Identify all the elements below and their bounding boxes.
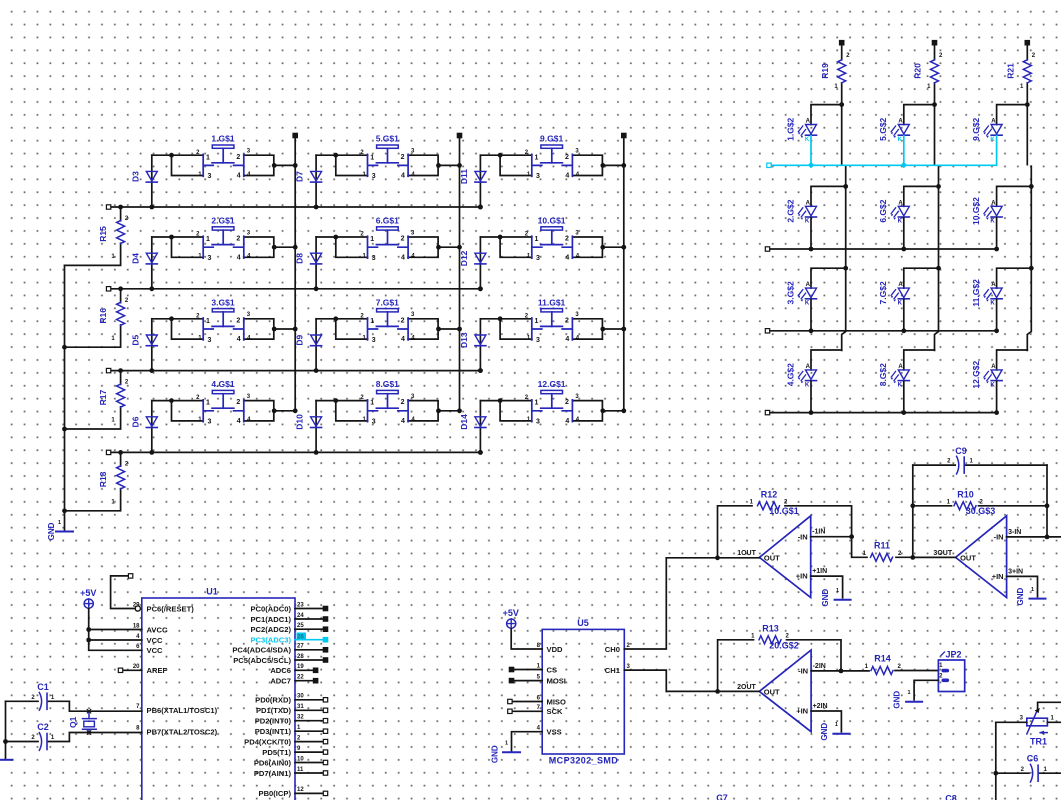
svg-text:3: 3 <box>207 419 211 426</box>
svg-text:D4: D4 <box>130 253 140 264</box>
diode D8 <box>295 237 322 291</box>
pin numbers of wire connections <box>360 230 415 259</box>
svg-text:1: 1 <box>505 741 508 747</box>
svg-text:PD0(RXD): PD0(RXD) <box>255 696 291 705</box>
wire <box>152 401 203 421</box>
svg-text:CS: CS <box>547 665 558 674</box>
svg-text:R13: R13 <box>762 624 779 634</box>
resistor R16 <box>65 286 129 347</box>
svg-text:10.G$1: 10.G$1 <box>769 506 799 516</box>
wire cathode <box>994 300 999 334</box>
svg-text:2: 2 <box>565 399 569 406</box>
wire CH0 to 1OUT <box>624 558 666 649</box>
svg-text:2: 2 <box>236 154 240 161</box>
wire vertical to C6 <box>993 722 998 800</box>
svg-text:D10: D10 <box>295 414 305 430</box>
svg-text:K: K <box>805 301 810 307</box>
wire feedback left vertical <box>910 465 915 557</box>
svg-text:2.G$2: 2.G$2 <box>785 199 795 222</box>
svg-text:A: A <box>898 364 903 370</box>
pin numbers of wire connections <box>196 230 251 259</box>
svg-text:SCK: SCK <box>547 707 564 716</box>
svg-text:1: 1 <box>370 236 374 243</box>
svg-text:K: K <box>898 219 903 225</box>
wire <box>316 319 367 339</box>
wire <box>904 268 939 288</box>
svg-text:D7: D7 <box>295 171 305 182</box>
wire <box>904 186 939 206</box>
svg-text:4: 4 <box>401 254 405 261</box>
svg-text:4: 4 <box>237 418 241 425</box>
svg-text:2: 2 <box>565 236 569 243</box>
svg-text:6.G$2: 6.G$2 <box>878 199 888 222</box>
wire <box>408 155 459 175</box>
resistor R12 <box>718 490 852 558</box>
wire +5V to VDD <box>511 628 542 649</box>
svg-text:3: 3 <box>207 173 211 180</box>
diode D6 <box>130 401 157 455</box>
svg-text:K: K <box>990 382 995 388</box>
capacitor C6 <box>996 754 1061 783</box>
svg-text:8.G$2: 8.G$2 <box>878 363 888 386</box>
svg-text:12: 12 <box>297 787 304 793</box>
wire <box>572 237 623 257</box>
wire row bus 4 of LED matrix <box>765 410 996 414</box>
diode D12 <box>459 237 486 291</box>
switch 2.G$1 <box>203 216 244 263</box>
diode D10 <box>295 401 322 455</box>
LED 7.G$2 <box>878 281 909 306</box>
IC U1 pin PB0(ICP) <box>259 787 328 798</box>
wire <box>811 350 842 370</box>
svg-text:1: 1 <box>535 400 539 407</box>
svg-text:D6: D6 <box>130 416 140 427</box>
svg-text:2OUT: 2OUT <box>737 684 756 691</box>
IC U1 pin PC1(ADC1) <box>250 613 327 624</box>
svg-text:PD4(XCK/T0): PD4(XCK/T0) <box>244 737 291 746</box>
LED 2.G$2 <box>785 199 816 224</box>
svg-text:K: K <box>898 301 903 307</box>
svg-text:U1: U1 <box>206 587 218 597</box>
ground GND of op-amp 3 <box>1016 587 1046 605</box>
wire cathode <box>809 300 814 334</box>
svg-text:1: 1 <box>206 318 210 325</box>
svg-text:C1: C1 <box>37 682 49 692</box>
svg-text:-1IN: -1IN <box>812 529 825 536</box>
svg-text:OUT: OUT <box>764 687 780 696</box>
resistor R11 <box>852 537 913 562</box>
pin numbers of wire connections <box>196 394 251 423</box>
wire +2IN to ground <box>811 711 841 732</box>
pin numbers of wire connections <box>360 312 415 341</box>
capacitor C9 <box>913 446 1047 475</box>
wire cathode to highlighted net <box>901 136 907 168</box>
svg-text:K: K <box>990 137 995 143</box>
svg-text:4.G$1: 4.G$1 <box>211 379 234 389</box>
svg-text:1: 1 <box>370 318 374 325</box>
wire <box>572 155 623 175</box>
wire <box>811 105 842 125</box>
svg-text:23: 23 <box>297 602 304 608</box>
LED 12.G$2 <box>971 360 1002 388</box>
wire <box>316 155 367 175</box>
ground GND of switch matrix <box>47 520 73 540</box>
LED 10.G$2 <box>971 197 1002 225</box>
svg-text:-IN: -IN <box>994 533 1004 542</box>
svg-text:19: 19 <box>297 664 304 670</box>
diode D13 <box>459 319 486 373</box>
svg-text:R18: R18 <box>98 471 108 487</box>
wire CH1 to 2OUT <box>624 670 666 691</box>
svg-text:3: 3 <box>372 255 376 262</box>
wire <box>480 155 531 175</box>
svg-text:3+IN: 3+IN <box>1008 568 1023 575</box>
svg-text:4: 4 <box>237 254 241 261</box>
svg-text:Q1: Q1 <box>68 716 78 728</box>
ground GND of op-amp 1 <box>821 588 851 606</box>
svg-text:3: 3 <box>536 173 540 180</box>
svg-text:4: 4 <box>237 173 241 180</box>
svg-text:4: 4 <box>565 336 569 343</box>
wire <box>811 268 846 288</box>
svg-text:3: 3 <box>207 255 211 262</box>
IC U1 left pin names <box>133 602 218 736</box>
connector JP2 <box>938 650 964 692</box>
svg-text:10: 10 <box>297 756 304 762</box>
wire CS <box>509 667 542 671</box>
svg-text:GND: GND <box>491 745 500 763</box>
svg-text:R15: R15 <box>98 226 108 242</box>
svg-text:9.G$1: 9.G$1 <box>540 134 563 144</box>
diode D4 <box>130 237 157 291</box>
svg-text:-IN: -IN <box>798 667 808 676</box>
LED 4.G$2 <box>785 363 816 388</box>
svg-text:MISO: MISO <box>547 697 567 706</box>
svg-text:4: 4 <box>401 418 405 425</box>
wire <box>904 105 935 125</box>
svg-text:-IN: -IN <box>798 532 808 541</box>
svg-text:30.G$3: 30.G$3 <box>966 506 996 516</box>
wire column bus 2 of LED matrix <box>932 102 941 350</box>
wire <box>408 401 459 421</box>
svg-text:MOSI: MOSI <box>547 676 566 685</box>
switch 9.G$1 <box>532 134 573 181</box>
svg-text:10.G$2: 10.G$2 <box>971 197 981 225</box>
svg-text:2: 2 <box>565 317 569 324</box>
svg-text:1: 1 <box>1031 587 1034 593</box>
wire column bus 3 of LED matrix <box>1025 102 1034 350</box>
svg-text:1: 1 <box>206 236 210 243</box>
svg-text:+IN: +IN <box>992 572 1004 581</box>
wire cathode to highlighted net <box>996 136 998 165</box>
IC U1 pin PD5(T1) <box>262 746 327 757</box>
IC U1 pin PD6(AIN0) <box>254 756 328 767</box>
diode D11 <box>459 155 486 209</box>
svg-text:PD3(INT1): PD3(INT1) <box>255 727 292 736</box>
svg-text:K: K <box>805 137 810 143</box>
svg-text:+5V: +5V <box>503 608 519 618</box>
wire +5V to AVCC/VCC <box>86 608 142 650</box>
svg-text:31: 31 <box>297 704 304 710</box>
LED 9.G$2 <box>971 117 1002 142</box>
svg-text:1: 1 <box>835 722 838 728</box>
svg-text:C6: C6 <box>1027 754 1039 764</box>
wire row bus 3 of switch matrix <box>106 368 482 373</box>
wire <box>904 350 935 370</box>
svg-text:D9: D9 <box>295 334 305 345</box>
wire JP2 pin2 to ground <box>914 680 938 700</box>
svg-text:5.G$2: 5.G$2 <box>878 117 888 140</box>
svg-text:PC5(ADC5/SCL): PC5(ADC5/SCL) <box>233 656 291 665</box>
junction <box>498 316 626 331</box>
wire MOSI <box>509 678 542 682</box>
wire <box>480 237 531 257</box>
svg-text:U5: U5 <box>577 618 589 628</box>
svg-text:R12: R12 <box>761 490 778 500</box>
wire SCK <box>508 709 543 713</box>
svg-text:VDD: VDD <box>547 645 564 654</box>
svg-text:K: K <box>990 301 995 307</box>
op-amp 20.G$2 <box>737 641 827 732</box>
IC U1 pin ADC7 <box>270 675 317 686</box>
wire 3-IN <box>1007 536 1061 538</box>
svg-text:4: 4 <box>237 336 241 343</box>
wire <box>997 268 1032 288</box>
node column bus 1 of switch matrix <box>293 133 297 411</box>
IC U5 body <box>542 618 624 766</box>
svg-text:3.G$2: 3.G$2 <box>785 281 795 304</box>
svg-text:PC0(ADC0): PC0(ADC0) <box>250 604 291 613</box>
svg-text:A: A <box>898 119 903 125</box>
svg-text:R21: R21 <box>1006 63 1016 79</box>
wire cathode <box>994 381 999 415</box>
svg-text:1: 1 <box>535 236 539 243</box>
wire +3IN to ground <box>1007 576 1038 596</box>
svg-text:PC1(ADC1): PC1(ADC1) <box>250 615 291 624</box>
IC U1 pin PC3(ADC3) <box>250 633 327 645</box>
ground GND of op-amp 2 <box>820 722 850 740</box>
wire <box>152 237 203 257</box>
svg-text:+IN: +IN <box>796 707 808 716</box>
svg-text:3.G$1: 3.G$1 <box>211 297 234 307</box>
svg-text:PB6(XTAL1/TOSC1): PB6(XTAL1/TOSC1) <box>147 706 218 715</box>
ground GND below U5 <box>491 741 521 763</box>
svg-text:A: A <box>806 282 811 288</box>
svg-text:3OUT: 3OUT <box>933 550 952 557</box>
wire <box>408 237 459 257</box>
IC U1 pin PC4(ADC4/SDA) <box>232 644 327 655</box>
junction <box>169 398 298 413</box>
resistor R18 <box>65 450 129 511</box>
svg-text:12.G$1: 12.G$1 <box>538 379 566 389</box>
junction <box>333 316 462 331</box>
svg-text:R11: R11 <box>874 541 890 551</box>
svg-text:1: 1 <box>206 154 210 161</box>
resistor R19 <box>820 41 850 105</box>
wire row bus 2 of switch matrix <box>106 286 482 291</box>
switch 5.G$1 <box>368 134 409 181</box>
wire <box>997 350 1028 370</box>
svg-text:1.G$1: 1.G$1 <box>211 134 234 144</box>
svg-text:R20: R20 <box>913 63 923 79</box>
ground GND near JP2 <box>893 690 923 708</box>
wire 2OUT output <box>666 689 759 694</box>
capacitor C1 <box>6 682 142 711</box>
wire TR1 terminals <box>996 721 1061 723</box>
svg-text:A: A <box>806 119 811 125</box>
svg-text:6.G$1: 6.G$1 <box>376 216 399 226</box>
IC U1 pin PD0(RXD) <box>255 694 328 705</box>
svg-text:3: 3 <box>207 337 211 344</box>
svg-text:1: 1 <box>535 154 539 161</box>
svg-text:2: 2 <box>236 317 240 324</box>
svg-text:11: 11 <box>297 767 304 773</box>
junction <box>333 235 462 250</box>
IC U1 pin PC2(ADC2) <box>250 623 327 634</box>
wire cathode <box>901 218 906 252</box>
IC U1 pin PD7(AIN1) <box>254 767 328 778</box>
pin numbers of wire connections <box>525 230 580 259</box>
svg-text:C2: C2 <box>37 722 49 732</box>
svg-text:2: 2 <box>236 236 240 243</box>
svg-text:1: 1 <box>58 520 61 526</box>
svg-text:D11: D11 <box>459 169 469 184</box>
switch 3.G$1 <box>203 297 244 344</box>
capacitor C8 partial label at bottom edge <box>945 794 957 800</box>
ground GND bottom left <box>0 759 13 761</box>
svg-text:+2IN: +2IN <box>813 703 828 710</box>
LED 8.G$2 <box>878 363 909 388</box>
svg-text:4.G$2: 4.G$2 <box>785 363 795 386</box>
svg-text:AREF: AREF <box>147 666 168 675</box>
svg-text:2: 2 <box>236 399 240 406</box>
resistor R17 <box>65 368 129 429</box>
svg-text:PD5(T1): PD5(T1) <box>262 748 291 757</box>
svg-text:20.G$2: 20.G$2 <box>769 641 799 651</box>
wire cathode <box>901 381 906 415</box>
svg-text:3-IN: 3-IN <box>1008 529 1021 536</box>
svg-text:4: 4 <box>401 173 405 180</box>
wire <box>811 186 846 206</box>
svg-text:PB0(ICP): PB0(ICP) <box>259 789 292 798</box>
diode D9 <box>295 319 322 373</box>
resistor R10 <box>913 490 1047 510</box>
switch 7.G$1 <box>368 297 409 344</box>
wire row bus 3 of LED matrix <box>765 329 996 333</box>
diode D7 <box>295 155 322 209</box>
svg-text:PB7(XTAL2/TOSC2): PB7(XTAL2/TOSC2) <box>147 728 218 737</box>
svg-text:1: 1 <box>370 154 374 161</box>
power +5V near U1 <box>80 588 96 608</box>
diode D14 <box>459 401 486 455</box>
svg-text:30: 30 <box>297 694 304 700</box>
svg-text:22: 22 <box>297 675 304 681</box>
capacitor C7 partial label at bottom edge <box>716 793 728 800</box>
svg-text:1: 1 <box>535 318 539 325</box>
switch 11.G$1 <box>532 297 573 344</box>
svg-text:ADC6: ADC6 <box>270 666 291 675</box>
svg-text:2: 2 <box>401 236 405 243</box>
svg-text:A: A <box>806 200 811 206</box>
wire <box>152 319 203 339</box>
svg-text:1.G$2: 1.G$2 <box>785 117 795 140</box>
svg-text:27: 27 <box>297 644 304 650</box>
wire 3OUT output <box>910 555 955 560</box>
wire <box>572 401 623 421</box>
svg-text:3: 3 <box>372 173 376 180</box>
svg-text:D12: D12 <box>459 250 469 266</box>
wire -1IN <box>811 534 854 539</box>
svg-text:PD7(AIN1): PD7(AIN1) <box>254 769 292 778</box>
svg-text:A: A <box>898 200 903 206</box>
svg-text:R17: R17 <box>98 390 108 406</box>
svg-text:32: 32 <box>297 715 304 721</box>
pin numbers of wire connections <box>196 149 251 178</box>
svg-text:A: A <box>991 364 996 370</box>
svg-text:A: A <box>991 119 996 125</box>
svg-text:CH0: CH0 <box>605 645 620 654</box>
op-amp 10.G$1 <box>737 506 827 598</box>
svg-text:4: 4 <box>565 173 569 180</box>
wire -2IN <box>811 669 869 674</box>
svg-text:PD6(AIN0): PD6(AIN0) <box>254 758 292 767</box>
IC U1 pin PC5(ADC5/SCL) <box>233 654 328 665</box>
svg-text:D13: D13 <box>459 332 469 348</box>
svg-text:K: K <box>805 219 810 225</box>
svg-text:2: 2 <box>401 399 405 406</box>
svg-text:28: 28 <box>297 654 304 660</box>
wire MISO <box>508 699 543 703</box>
resistor R13 <box>718 624 841 692</box>
wire column bus 1 of LED matrix <box>839 102 848 350</box>
node column bus 2 of switch matrix <box>457 133 461 411</box>
svg-text:1: 1 <box>370 400 374 407</box>
svg-text:2: 2 <box>565 154 569 161</box>
LED 3.G$2 <box>785 281 816 306</box>
pin numbers of wire connections <box>525 394 580 423</box>
IC U1 pin ADC6 <box>270 664 317 675</box>
wire cathode <box>809 381 814 415</box>
junction <box>169 235 298 250</box>
svg-text:4: 4 <box>565 418 569 425</box>
svg-text:K: K <box>898 382 903 388</box>
svg-text:C8: C8 <box>945 794 957 800</box>
svg-text:2: 2 <box>401 154 405 161</box>
svg-text:8.G$1: 8.G$1 <box>376 379 399 389</box>
svg-text:GND: GND <box>820 723 829 741</box>
junction <box>169 153 298 168</box>
svg-text:1: 1 <box>206 400 210 407</box>
pin bubble on PC6(/RESET) <box>135 606 140 611</box>
svg-text:AVCC: AVCC <box>147 625 168 634</box>
LED 1.G$2 <box>785 117 816 142</box>
svg-text:9.G$2: 9.G$2 <box>971 117 981 140</box>
wire crystal ground rail <box>3 701 8 759</box>
power +5V near U5 <box>503 608 519 628</box>
crystal Q1 <box>68 709 96 734</box>
svg-text:OUT: OUT <box>960 553 976 562</box>
svg-text:R14: R14 <box>874 654 891 664</box>
wire row bus 4 of switch matrix <box>106 450 482 455</box>
wire TR1 wiper <box>1035 702 1061 713</box>
junction <box>333 153 462 168</box>
op-amp 30.G$3 <box>933 506 1023 598</box>
svg-text:K: K <box>898 137 903 143</box>
LED 6.G$2 <box>878 199 909 224</box>
wire row bus 1 of switch matrix <box>106 205 482 210</box>
wire /RESET net <box>111 574 136 609</box>
svg-text:PC2(ADC2): PC2(ADC2) <box>250 625 291 634</box>
